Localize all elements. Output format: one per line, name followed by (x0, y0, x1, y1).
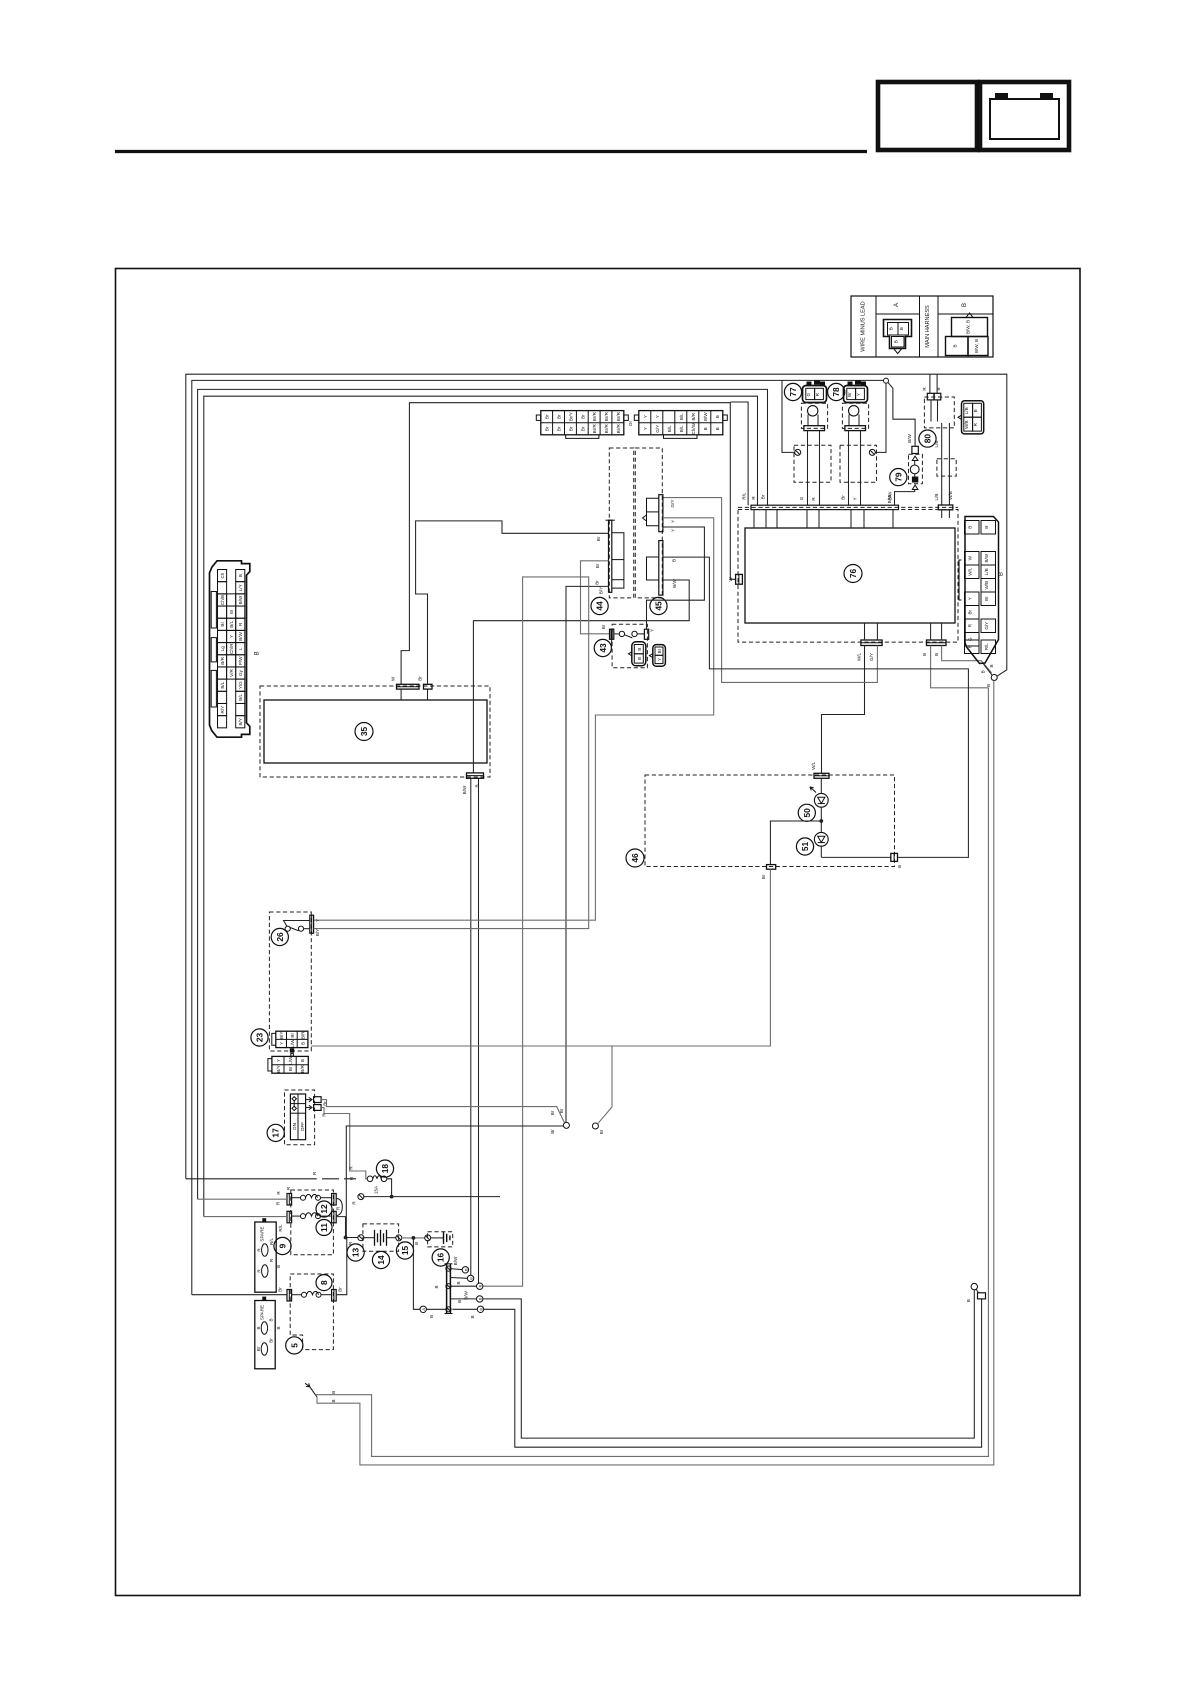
label 79 (890, 469, 907, 486)
svg-text:B: B (255, 651, 261, 655)
svg-text:9: 9 (278, 1243, 288, 1248)
connector W on 35 (391, 676, 419, 700)
header battery box (980, 82, 1069, 150)
svg-text:R: R (751, 496, 756, 500)
svg-text:R: R (269, 1258, 274, 1262)
svg-text:W: W (728, 576, 733, 581)
svg-text:R/L: R/L (742, 492, 747, 500)
svg-text:R: R (815, 392, 820, 396)
svg-text:R/L: R/L (278, 1224, 283, 1232)
terminal B (B from 35) (450, 1277, 467, 1280)
svg-text:B: B (934, 653, 939, 656)
wire B 45 to meter ground (663, 557, 969, 857)
svg-text:76: 76 (848, 569, 858, 579)
legend connector A icon (884, 320, 912, 349)
bullet connector Br pair (563, 1122, 569, 1128)
multipin connector cells (218, 570, 227, 582)
LED 50 (810, 778, 828, 807)
svg-text:Br: Br (418, 676, 423, 681)
label 78 (828, 383, 845, 400)
svg-text:Br: Br (599, 1129, 604, 1134)
svg-text:R/L: R/L (269, 1237, 274, 1245)
svg-text:B: B (980, 670, 985, 673)
label 46 (626, 849, 644, 867)
wire Y1 45 to handlebar switch 26 (314, 518, 714, 920)
label 51 (796, 838, 813, 855)
svg-text:B: B (478, 1297, 483, 1300)
svg-text:B: B (478, 1285, 483, 1288)
svg-text:W/B: W/B (948, 491, 953, 500)
LED 51 (814, 807, 828, 846)
svg-text:14: 14 (376, 1255, 386, 1265)
label 23 (251, 1029, 268, 1046)
wire Br bullet to meter Br line (598, 1046, 612, 1124)
svg-text:B: B (936, 387, 941, 390)
svg-text:B/R: B/R (300, 1064, 305, 1072)
connector 23 upper grid (272, 1031, 308, 1048)
label 44 (591, 597, 608, 614)
svg-text:B: B (456, 1281, 461, 1284)
connector Y Br pair (649, 645, 665, 667)
wire B/W rectifier to bus (895, 490, 915, 506)
svg-text:Or: Or (628, 420, 633, 426)
svg-text:B: B (470, 1315, 475, 1318)
svg-text:B/L: B/L (229, 620, 234, 627)
svg-text:B/W, B: B/W, B (974, 339, 979, 353)
svg-text:R: R (922, 387, 927, 391)
wire B/W 45 to 35 connector (473, 580, 689, 773)
svg-text:L/Y: L/Y (238, 584, 243, 591)
wire R feed with inline connector dashes (186, 1178, 317, 1180)
ignition coil 77 connector (803, 381, 827, 403)
svg-text:B/L: B/L (667, 425, 672, 432)
label 43 (594, 639, 611, 656)
connector W/L G/Y under 76 (856, 623, 882, 661)
svg-text:77: 77 (788, 387, 798, 397)
label 35 (355, 723, 373, 741)
svg-text:B: B (637, 657, 642, 660)
svg-text:B: B (637, 648, 642, 651)
svg-text:WIRE MINUS LEAD: WIRE MINUS LEAD (861, 301, 867, 351)
connector Br on 46 (761, 865, 776, 880)
svg-text:50: 50 (802, 808, 812, 818)
svg-text:B: B (256, 1326, 261, 1329)
label 76 (844, 565, 862, 583)
svg-text:A: A (894, 303, 900, 307)
svg-text:L/B: L/B (934, 441, 939, 448)
label 15 (396, 1242, 413, 1259)
svg-text:Y: Y (650, 629, 655, 632)
svg-text:Br: Br (580, 414, 585, 419)
label 18 (376, 1160, 393, 1177)
svg-text:R: R (968, 623, 973, 627)
svg-text:B: B (429, 1315, 434, 1318)
connector B B pair below 43 (628, 642, 645, 666)
svg-text:Gy: Gy (238, 669, 243, 676)
wire Br 46 down to pilot box connector (311, 869, 770, 1046)
svg-text:Br: Br (595, 580, 600, 585)
svg-text:G: G (806, 392, 811, 396)
ground 16 (425, 1235, 431, 1241)
svg-text:A: A (421, 1308, 426, 1311)
svg-text:35: 35 (359, 727, 369, 737)
wire gray R/L to fuse 11 (204, 1216, 287, 1218)
svg-text:L/B: L/B (964, 407, 969, 414)
svg-text:B: B (276, 1265, 281, 1268)
node (390, 1195, 394, 1199)
svg-text:Y/G: Y/G (238, 681, 243, 689)
svg-text:B/W: B/W (464, 1291, 469, 1300)
svg-text:Y: Y (643, 427, 648, 430)
svg-text:W/L: W/L (811, 761, 816, 770)
svg-text:B: B (238, 574, 243, 577)
svg-text:Br: Br (550, 1129, 555, 1134)
svg-text:78: 78 (831, 387, 841, 397)
connector 76 harness cells col1 (965, 521, 980, 654)
svg-text:B/Y: B/Y (315, 929, 320, 936)
svg-text:R: R (973, 422, 978, 426)
wire B 35 to ground terminal (478, 778, 480, 1283)
svg-text:B: B (899, 327, 904, 330)
fuse 11 (287, 1211, 336, 1223)
svg-text:51: 51 (800, 842, 810, 852)
svg-text:8: 8 (319, 1280, 329, 1285)
svg-text:B/L: B/L (220, 681, 225, 688)
svg-text:B: B (989, 664, 994, 667)
terminal square right (978, 1293, 986, 1299)
svg-text:W/B: W/B (984, 581, 989, 590)
main harness connector right of 76 (959, 517, 999, 664)
svg-text:Y: Y (671, 529, 676, 532)
svg-text:L/W: L/W (288, 1056, 293, 1065)
svg-text:Y: Y (315, 919, 320, 922)
svg-text:26: 26 (275, 932, 285, 942)
svg-text:Br/R: Br/R (616, 424, 621, 434)
svg-text:Br: Br (290, 1033, 295, 1038)
svg-text:80: 80 (923, 434, 933, 444)
svg-text:Ch/W: Ch/W (691, 422, 696, 434)
label 9 (274, 1237, 291, 1254)
terminal B (B/W) (450, 1269, 462, 1270)
svg-text:Y: Y (657, 658, 662, 661)
svg-text:B: B (301, 1042, 306, 1045)
wire B/W to rectifier 79 (888, 383, 915, 447)
svg-text:W/B: W/B (964, 420, 969, 429)
svg-text:79: 79 (893, 472, 903, 482)
svg-text:B: B (331, 1399, 336, 1402)
connector B B under 76 (922, 623, 946, 656)
svg-text:Br: Br (568, 426, 573, 431)
svg-text:SPARE: SPARE (260, 1226, 265, 1241)
svg-text:B: B (276, 1326, 281, 1329)
label 14 (372, 1251, 389, 1268)
wire ignition feed: left edge to coil junction (192, 380, 884, 1294)
svg-text:Br: Br (559, 1108, 564, 1113)
terminal B3 (450, 1285, 476, 1287)
node ignition junction (884, 378, 889, 383)
svg-text:B/W: B/W (238, 595, 243, 604)
svg-text:Br: Br (761, 874, 766, 879)
wire B 76 right to ground node (942, 646, 992, 673)
svg-text:R: R (238, 622, 243, 626)
header chapter box (empty) (878, 82, 977, 150)
svg-text:Ch/B: Ch/B (220, 595, 225, 605)
wire fuse 18 output (387, 1179, 392, 1197)
label 80 (919, 430, 936, 447)
svg-text:Br/R: Br/R (604, 424, 609, 434)
wire R rail with splice (364, 1196, 500, 1198)
svg-text:B: B (715, 427, 720, 430)
svg-text:P/W: P/W (238, 656, 243, 665)
svg-text:Y: Y (968, 597, 973, 600)
svg-text:Br/R: Br/R (592, 424, 597, 434)
rectifier 79 (909, 446, 923, 489)
svg-text:B/Y: B/Y (599, 587, 604, 594)
label 13 (347, 1244, 364, 1261)
svg-text:B: B (897, 865, 902, 868)
wire B/W 35 to ground terminal (470, 778, 472, 1275)
svg-text:18: 18 (380, 1164, 390, 1174)
svg-text:B: B (672, 559, 677, 562)
svg-text:B/W: B/W (453, 1256, 458, 1265)
svg-text:B: B (966, 1299, 971, 1302)
svg-text:R: R (811, 497, 816, 501)
svg-text:Lg: Lg (220, 646, 225, 652)
svg-text:12: 12 (319, 1204, 329, 1214)
label 8 (316, 1275, 332, 1291)
wire Br bullet to fuse riser (346, 1126, 563, 1238)
svg-text:R: R (968, 644, 973, 648)
node junction to ground bus (412, 1236, 416, 1240)
svg-text:B: B (457, 1300, 462, 1303)
main diagram frame (116, 269, 1081, 1596)
svg-text:B: B (434, 1285, 439, 1288)
svg-text:Br: Br (580, 426, 585, 431)
connector W on left of 76 (728, 574, 743, 584)
svg-text:Br: Br (557, 414, 562, 419)
svg-text:15A: 15A (374, 1185, 379, 1194)
svg-text:Br: Br (545, 414, 550, 419)
svg-text:Y: Y (229, 635, 234, 638)
svg-text:B/W: B/W (703, 412, 708, 421)
connector 13 (358, 1235, 364, 1241)
splice symbol (358, 1194, 364, 1200)
wire Br: left edge to magneto bus (198, 389, 768, 1199)
svg-text:B/W, B: B/W, B (966, 320, 971, 334)
svg-text:G/Y: G/Y (670, 500, 675, 508)
connector strip left (2x7) (536, 411, 628, 439)
connector strip right (2x7) (634, 411, 727, 439)
svg-text:Br: Br (968, 609, 973, 614)
svg-text:R: R (257, 1269, 262, 1273)
page top rule (115, 150, 867, 153)
svg-text:Br: Br (557, 426, 562, 431)
svg-text:17: 17 (271, 1128, 281, 1138)
svg-text:Br: Br (984, 596, 989, 601)
label 12 (316, 1201, 332, 1217)
legend connector B icon (966, 313, 973, 318)
wire B 76 left to ground riser (931, 646, 989, 688)
svg-text:13: 13 (351, 1248, 361, 1258)
svg-text:Br: Br (269, 1338, 274, 1343)
svg-text:B: B (962, 303, 968, 307)
svg-text:W: W (391, 676, 396, 681)
spark plug cap 77 (794, 445, 831, 482)
svg-text:Br: Br (256, 1346, 261, 1351)
svg-text:B: B (715, 415, 720, 418)
svg-text:B/Y: B/Y (276, 1065, 281, 1072)
svg-text:W/L: W/L (856, 652, 861, 661)
wire coil branch right to spark plug R (876, 383, 887, 452)
wire W/L 76 to meter 46 (822, 646, 865, 774)
svg-text:R: R (276, 1201, 281, 1205)
svg-text:Br: Br (760, 494, 765, 499)
svg-text:Y: Y (279, 1042, 284, 1045)
wire fuse 8 out riser (336, 1238, 347, 1295)
svg-text:45: 45 (654, 601, 664, 611)
connector 23 pins (290, 1048, 294, 1052)
svg-text:B: B (922, 653, 927, 656)
capacitor 14 (363, 1224, 399, 1251)
svg-text:Br: Br (841, 495, 846, 500)
svg-text:Br: Br (220, 622, 225, 627)
svg-text:R: R (351, 1201, 356, 1205)
svg-text:B: B (300, 1059, 305, 1062)
svg-text:B: B (463, 1268, 468, 1271)
fuse 12 (287, 1194, 336, 1206)
wire connector tip to ground node (984, 664, 992, 675)
svg-text:Ch: Ch (220, 572, 225, 578)
svg-text:Br: Br (278, 1287, 283, 1292)
svg-text:B: B (414, 1242, 419, 1245)
connector wire minus lead (top right 2x2) (958, 401, 984, 434)
svg-text:B/L: B/L (679, 413, 684, 420)
svg-text:SPARE: SPARE (260, 1305, 265, 1320)
svg-text:R: R (349, 1176, 354, 1180)
wire main fuse B leg (936, 374, 938, 393)
wire Br from 17 to bullet (321, 1100, 564, 1123)
svg-text:V/R: V/R (229, 668, 234, 676)
svg-text:B/Y: B/Y (279, 1032, 284, 1039)
svg-text:B/W: B/W (238, 632, 243, 641)
svg-text:R/L: R/L (984, 643, 989, 651)
node junction 46 (819, 819, 823, 823)
svg-text:B: B (953, 344, 958, 347)
wire stubs bus to 76 (753, 510, 755, 528)
wire Br 35 to relay 44 (416, 521, 609, 684)
wire B lead 1 (316, 688, 989, 1457)
wire Br 44 to sidestand switch 43 (581, 561, 610, 634)
svg-text:B/L: B/L (679, 425, 684, 432)
svg-text:Ch/R: Ch/R (229, 643, 234, 654)
legend box: WIRE MINUS LEAD / MAIN HARNESS (851, 296, 993, 357)
svg-text:Br: Br (657, 648, 662, 653)
svg-text:B: B (986, 684, 991, 687)
svg-text:11: 11 (319, 1223, 329, 1232)
svg-text:Br: Br (288, 1066, 293, 1071)
svg-text:B/R: B/R (691, 412, 696, 420)
svg-text:B: B (889, 327, 894, 330)
connector B on 46 (821, 846, 902, 868)
svg-text:44: 44 (595, 601, 605, 611)
ignition coil 77 body (801, 403, 827, 430)
wire B to ground 16 (402, 1237, 425, 1239)
svg-text:Br: Br (338, 1287, 343, 1292)
svg-text:Br: Br (847, 392, 852, 397)
connector 15 (396, 1235, 402, 1241)
svg-text:15: 15 (400, 1246, 410, 1256)
svg-text:Br/Y: Br/Y (568, 412, 573, 421)
svg-text:B: B (479, 1308, 484, 1311)
magneto bus bar (738, 505, 958, 509)
connector B/W B under 35 (462, 773, 484, 794)
svg-text:G/Y: G/Y (984, 622, 989, 630)
ignition coil 78 connector (844, 381, 868, 403)
svg-text:G/Y: G/Y (655, 425, 660, 433)
wire R from 17 to fuse 18 (321, 1108, 367, 1179)
svg-text:R: R (312, 1171, 317, 1175)
terminal A (420, 1306, 426, 1312)
svg-text:ON: ON (292, 1123, 297, 1130)
svg-text:B/R: B/R (301, 1031, 306, 1039)
svg-text:Y: Y (655, 415, 660, 418)
svg-text:Y: Y (276, 1059, 281, 1062)
wire 26 ground to terminal B3 (314, 577, 589, 1286)
wire G coil77 to bus (807, 431, 809, 506)
svg-text:B: B (984, 526, 989, 529)
wire fuse 11 out to junction (336, 1217, 345, 1238)
connector W/L on 46 (811, 761, 829, 778)
svg-text:R: R (336, 1206, 341, 1210)
switch 17 output pins (306, 1097, 328, 1117)
connector 76 harness cells col2 (981, 521, 996, 654)
svg-text:Br: Br (550, 1110, 555, 1115)
svg-text:L/B: L/B (934, 494, 939, 501)
svg-text:Y: Y (643, 415, 648, 418)
label 5 (286, 1337, 303, 1354)
svg-text:B: B (894, 340, 899, 343)
svg-text:B/L: B/L (238, 694, 243, 701)
svg-text:MAIN HARNESS: MAIN HARNESS (925, 305, 931, 348)
svg-text:W: W (968, 555, 973, 560)
connector Br on 35 (418, 676, 432, 700)
node ground join circle (991, 675, 997, 681)
terminal circle right (971, 1283, 977, 1289)
svg-text:B: B (469, 1277, 474, 1280)
svg-text:B/Y: B/Y (238, 718, 243, 725)
switch 26 contacts (284, 915, 314, 933)
svg-text:B: B (973, 409, 978, 412)
wire W: lighting coil to 76 (401, 403, 735, 685)
svg-text:46: 46 (630, 853, 640, 863)
spark plug cap 78 (840, 445, 877, 482)
svg-text:B: B (269, 1318, 274, 1321)
wire R main: left edge to main fuse and battery riser (186, 374, 1007, 1179)
label 11 (316, 1220, 332, 1236)
svg-text:R: R (348, 1241, 353, 1245)
svg-text:Br/R: Br/R (604, 411, 609, 421)
svg-text:5: 5 (289, 1343, 299, 1348)
connector 23 lower grid (268, 1056, 308, 1073)
svg-text:B: B (968, 526, 973, 529)
wire main fuse R leg (929, 374, 931, 393)
terminal B4 (450, 1298, 476, 1300)
svg-text:R: R (257, 1248, 262, 1252)
svg-text:Br/R: Br/R (592, 411, 597, 421)
wire B4 long run to frame ground right (483, 1290, 974, 1438)
main fuse 80 (924, 393, 954, 428)
svg-text:B/R: B/R (220, 656, 225, 664)
